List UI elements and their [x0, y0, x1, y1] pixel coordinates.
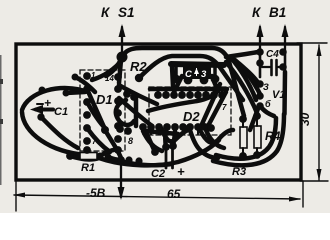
svg-text:7: 7 — [92, 137, 97, 146]
svg-text:D1: D1 — [96, 92, 113, 107]
svg-text:65: 65 — [167, 187, 181, 201]
svg-text:S1: S1 — [118, 5, 135, 20]
svg-text:8: 8 — [220, 90, 225, 99]
svg-text:7: 7 — [222, 103, 227, 112]
svg-text:+: + — [177, 164, 185, 179]
svg-text:R2: R2 — [130, 59, 147, 74]
svg-text:3: 3 — [201, 69, 207, 80]
svg-text:8: 8 — [128, 136, 133, 146]
svg-text:1: 1 — [91, 71, 96, 80]
svg-text:В1: В1 — [269, 5, 286, 20]
svg-text:V1: V1 — [272, 89, 285, 101]
svg-text:С2: С2 — [151, 168, 165, 180]
svg-text:+: + — [44, 96, 51, 110]
svg-text:D2: D2 — [183, 109, 200, 124]
svg-text:С: С — [185, 69, 192, 80]
svg-text:З: З — [263, 82, 269, 92]
svg-text:R1: R1 — [81, 162, 95, 174]
svg-text:R3: R3 — [232, 166, 246, 178]
svg-text:R4: R4 — [265, 129, 281, 143]
svg-text:С4: С4 — [266, 49, 279, 60]
svg-text:б: б — [265, 99, 271, 109]
svg-text:К: К — [252, 5, 262, 20]
svg-text:-5В: -5В — [86, 186, 106, 200]
svg-text:14: 14 — [105, 74, 114, 83]
svg-text:С1: С1 — [54, 106, 68, 118]
svg-text:К: К — [101, 5, 111, 20]
svg-text:30: 30 — [298, 112, 312, 126]
